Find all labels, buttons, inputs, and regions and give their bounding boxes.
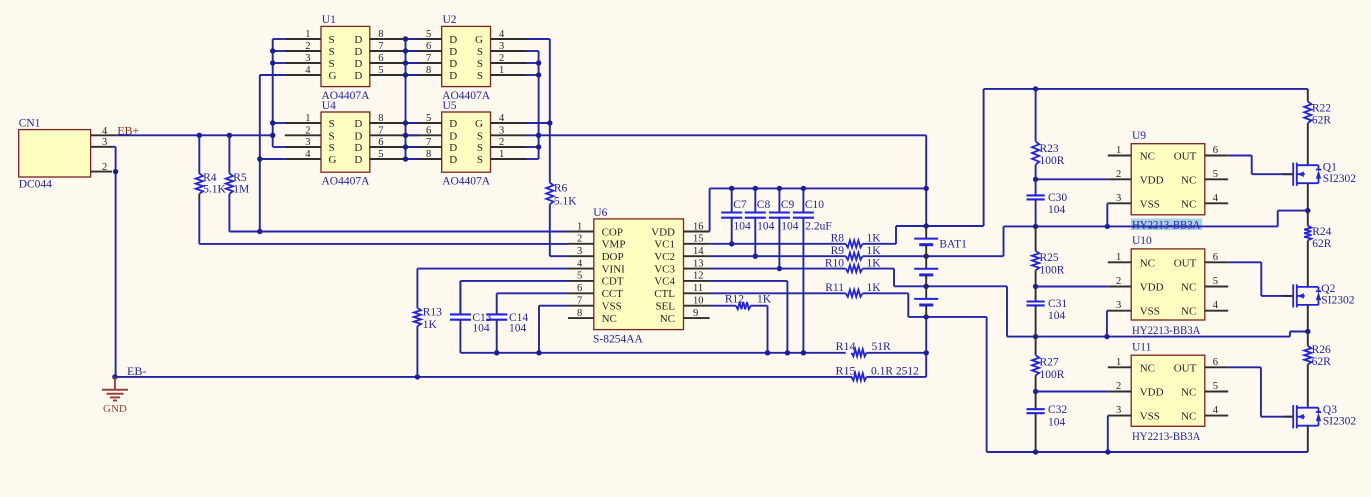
svg-text:D: D [354,34,362,46]
wire C31 junction to U10 VDD [1036,286,1108,288]
svg-text:1: 1 [1116,357,1121,368]
svg-text:4: 4 [499,29,505,40]
transistor U1 [285,14,406,102]
resistor R11 [825,282,881,297]
resistor R12 [725,294,772,310]
wire R10 jog to battery junction 3 [863,269,1007,289]
svg-text:S: S [477,130,483,142]
svg-text:100R: 100R [1040,155,1065,167]
transistor U4 [285,100,406,188]
svg-text:G: G [329,70,337,82]
capacitor C8 [745,188,775,259]
svg-text:4: 4 [499,113,505,124]
wire U6 SEL row [710,305,736,307]
resistor R22 [1304,89,1331,165]
svg-text:VSS: VSS [1140,411,1160,423]
resistor R4 [196,133,227,244]
svg-text:CCT: CCT [602,288,624,300]
svg-text:D: D [449,118,457,130]
svg-text:VC2: VC2 [654,251,675,263]
svg-text:6: 6 [378,137,383,148]
svg-text:AO4407A: AO4407A [322,176,371,188]
svg-text:R4: R4 [203,172,217,184]
svg-text:VDD: VDD [1140,174,1164,186]
svg-text:COP: COP [602,226,623,238]
svg-text:2: 2 [499,137,504,148]
wire U6 CCT to C14 [497,292,568,294]
svg-text:1K: 1K [867,233,882,245]
svg-text:R26: R26 [1312,344,1331,356]
svg-text:VC1: VC1 [654,239,675,251]
svg-text:8: 8 [378,29,383,40]
resistor R25 [1032,226,1065,286]
svg-text:VSS: VSS [602,300,622,312]
svg-text:7: 7 [378,125,383,136]
svg-text:100R: 100R [1040,369,1065,381]
resistor R24 [1304,211,1332,287]
svg-text:3: 3 [577,246,582,257]
wire C30 junction to U9 VDD [1036,178,1108,180]
wire U6 VC3 row [710,268,846,270]
svg-text:2: 2 [305,41,310,52]
svg-text:7: 7 [577,295,582,306]
svg-text:R6: R6 [554,183,568,195]
pin 4 of CN1 [91,126,117,137]
svg-text:4: 4 [1213,300,1219,311]
svg-text:1: 1 [1116,252,1121,263]
wire R11 jog to battery junction 4 [863,293,987,319]
svg-text:3: 3 [499,41,504,52]
capacitor C13 [450,281,492,353]
svg-text:VDD: VDD [1140,282,1164,294]
svg-text:10: 10 [693,295,704,306]
svg-text:VMP: VMP [602,239,626,251]
svg-text:7: 7 [426,137,431,148]
wire battery junction2 to channel-1 rail [1003,226,1005,256]
transistor Q2 [1283,283,1355,307]
svg-text:SI2302: SI2302 [1323,173,1356,185]
svg-text:R24: R24 [1312,226,1331,238]
svg-text:S: S [329,34,335,46]
svg-text:S: S [329,130,335,142]
svg-text:3: 3 [1116,193,1121,204]
wire Q3 source down to rail corner [1307,426,1309,452]
svg-text:1: 1 [499,149,504,160]
svg-text:G: G [329,154,337,166]
svg-text:VC4: VC4 [654,276,675,288]
svg-text:NC: NC [660,313,675,325]
resistor R14 [836,339,892,357]
pin 3 of CN1 [91,137,112,148]
wire U6 CTL row [710,292,846,294]
svg-text:S: S [329,118,335,130]
chip U10 [1108,235,1228,337]
pin 2 of CN1 [91,162,112,173]
svg-text:104: 104 [734,221,752,233]
svg-text:NC: NC [1140,362,1155,374]
svg-text:4: 4 [305,149,311,160]
svg-text:1: 1 [499,65,504,76]
svg-text:4: 4 [577,258,583,269]
capacitor C10 [793,188,832,352]
svg-text:DC044: DC044 [19,179,52,191]
svg-text:8: 8 [577,308,582,319]
svg-text:11: 11 [693,283,703,294]
svg-text:OUT: OUT [1174,151,1197,163]
wire G-net vertical U1/U4 gates [257,75,285,232]
svg-text:R5: R5 [233,172,247,184]
svg-text:R10: R10 [825,257,844,269]
svg-text:12: 12 [693,271,704,282]
svg-text:104: 104 [1048,204,1066,216]
svg-text:D: D [449,130,457,142]
svg-text:2: 2 [1116,169,1121,180]
ground GND [102,374,128,415]
wire C32 junction to U11 VDD [1036,391,1108,393]
wire D-net middle column U1-U2 and U4-U5 [403,36,419,161]
op-amp U6 S-8254AA body [568,207,710,346]
svg-text:G: G [475,118,483,130]
transistor U5 [406,100,527,188]
svg-text:GND: GND [103,403,127,415]
svg-text:C30: C30 [1048,192,1067,204]
capacitor C14 [486,293,528,353]
svg-text:SI2302: SI2302 [1323,416,1356,428]
wire Q2 source to R26 junction [1305,305,1310,334]
svg-text:104: 104 [781,221,799,233]
svg-text:S: S [477,46,483,58]
svg-text:NC: NC [1181,387,1196,399]
svg-text:8: 8 [426,65,431,76]
wire U10 OUT to Q2 gate [1228,262,1293,296]
resistor R5 [226,133,249,232]
svg-text:1: 1 [577,221,582,232]
svg-text:1M: 1M [233,184,249,196]
wire R9 to battery junction 2 [863,254,1004,259]
svg-text:S: S [329,142,335,154]
svg-text:2: 2 [499,53,504,64]
svg-text:2: 2 [1116,381,1121,392]
svg-text:2: 2 [305,125,310,136]
wire R5 to U6 pin1 (COP) [229,229,568,234]
wire CN1 pin3 to pin2 junction and down to EB- rail [112,147,118,377]
svg-text:62R: 62R [1312,238,1332,250]
svg-text:2.2uF: 2.2uF [805,221,832,233]
transistor Q3 [1283,404,1356,428]
svg-text:5: 5 [1213,381,1218,392]
wire U6 VC2 row [710,255,846,257]
wire battery junction3 to channel-2 rail [1006,286,1008,336]
battery BAT1 [914,226,967,317]
transistor Q1 [1283,162,1356,186]
wire U6 CDT to C13 [460,281,568,314]
svg-text:R22: R22 [1312,103,1331,115]
wire U6 VC4 down to VSS rail [710,281,788,353]
svg-text:5: 5 [1213,276,1218,287]
wire VSS rail from C13 to battery [460,350,845,355]
svg-text:Q1: Q1 [1323,162,1337,174]
svg-text:NC: NC [1181,282,1196,294]
svg-text:NC: NC [1181,198,1196,210]
svg-text:6: 6 [378,53,383,64]
svg-text:6: 6 [1213,145,1218,156]
svg-text:D: D [449,34,457,46]
svg-text:VC3: VC3 [654,263,675,275]
svg-text:AO4407A: AO4407A [442,176,491,188]
svg-text:D: D [354,154,362,166]
resistor R9 [831,245,882,260]
svg-text:U10: U10 [1132,235,1152,247]
svg-text:HY2213-BB3A: HY2213-BB3A [1132,431,1201,443]
svg-text:62R: 62R [1312,115,1332,127]
svg-text:S: S [477,142,483,154]
svg-text:HY2213-BB3A: HY2213-BB3A [1132,220,1201,232]
svg-text:3: 3 [499,125,504,136]
svg-text:104: 104 [509,322,527,334]
net label EB- [127,364,146,378]
svg-text:1K: 1K [867,245,882,257]
wire R4 to U6 pin2 (VMP) [199,243,568,245]
wire channel-3 VSS rail [987,449,1308,454]
connector CN1 [19,118,91,191]
svg-text:51R: 51R [872,341,892,353]
svg-text:U5: U5 [443,100,457,112]
resistor R27 [1032,337,1065,392]
svg-text:8: 8 [426,149,431,160]
svg-text:VSS: VSS [1140,198,1160,210]
svg-text:5.1K: 5.1K [203,184,226,196]
resistor R10 [825,257,881,272]
svg-text:HY2213-BB3A: HY2213-BB3A [1132,325,1201,337]
svg-text:U4: U4 [322,100,336,112]
svg-text:0.1R 2512: 0.1R 2512 [871,365,919,377]
svg-text:R13: R13 [423,307,442,319]
svg-text:104: 104 [1048,417,1066,429]
svg-text:NC: NC [1181,174,1196,186]
svg-text:CTL: CTL [654,288,675,300]
svg-text:G: G [475,34,483,46]
svg-text:R23: R23 [1040,143,1059,155]
resistor R8 [831,233,882,248]
svg-text:1K: 1K [867,257,882,269]
svg-text:S: S [477,70,483,82]
wire U10 VSS down to rail [1106,311,1109,337]
resistor R13 [414,307,442,377]
svg-text:CN1: CN1 [19,118,41,130]
svg-text:VINI: VINI [602,263,626,275]
svg-text:1K: 1K [423,319,438,331]
svg-text:2: 2 [102,162,107,173]
svg-text:2: 2 [1116,276,1121,287]
svg-text:SI2302: SI2302 [1321,295,1354,307]
svg-text:C32: C32 [1048,404,1067,416]
svg-text:VSS: VSS [1140,306,1160,318]
transistor U2 [406,14,527,102]
capacitor C9 [769,188,799,271]
wire channel-1 VSS rail [1004,211,1308,229]
svg-text:15: 15 [693,234,704,245]
svg-text:C9: C9 [781,199,795,211]
svg-text:D: D [354,118,362,130]
wire R14 to battery bottom junction [867,317,929,356]
svg-text:3: 3 [305,53,310,64]
svg-text:EB-: EB- [127,364,146,378]
svg-text:4: 4 [1213,193,1219,204]
wire channel-2 VSS rail [1007,332,1308,340]
wire EB- rail [115,374,852,379]
svg-text:U2: U2 [443,14,457,26]
svg-text:5: 5 [378,149,383,160]
svg-text:1: 1 [305,29,310,40]
chip U9 [1108,130,1228,232]
wire R8 jog to battery top junction [863,223,984,244]
svg-text:D: D [354,58,362,70]
svg-text:U6: U6 [593,207,607,219]
svg-text:5: 5 [426,29,431,40]
svg-text:5: 5 [378,65,383,76]
wire EB+ from CN1 pin4 to U4 S-column [116,134,272,136]
svg-text:1K: 1K [757,294,772,306]
svg-text:7: 7 [426,53,431,64]
svg-text:D: D [354,130,362,142]
svg-text:1K: 1K [867,282,882,294]
svg-text:1: 1 [305,113,310,124]
wire U6 VINI to R13 [417,269,568,308]
svg-text:5: 5 [1213,169,1218,180]
svg-text:8: 8 [378,113,383,124]
resistor R6 [546,183,577,257]
wire U11 VSS down to rail [1107,416,1109,452]
svg-text:VDD: VDD [651,226,675,238]
wire U9 OUT to Q1 gate [1228,156,1293,175]
svg-text:3: 3 [305,137,310,148]
wire VDD pin16 up to capacitor rail [710,186,927,232]
wire Q1 source to R24 junction [1305,183,1310,213]
capacitor C31 [1027,284,1068,337]
capacitor C7 [721,188,751,246]
capacitor C30 [1027,177,1068,227]
svg-text:6: 6 [426,125,431,136]
svg-text:104: 104 [757,221,775,233]
svg-text:5: 5 [577,271,582,282]
svg-text:R12: R12 [725,294,744,306]
svg-text:7: 7 [378,41,383,52]
svg-text:16: 16 [693,221,704,232]
svg-text:S: S [329,58,335,70]
svg-text:U1: U1 [322,14,336,26]
svg-text:OUT: OUT [1174,257,1197,269]
svg-text:R11: R11 [825,282,844,294]
wire U2/U5 gate vertical [526,39,552,183]
svg-text:NC: NC [602,313,617,325]
net label EB+ [117,123,139,137]
resistor R26 [1304,332,1331,408]
svg-text:SEL: SEL [655,300,675,312]
svg-text:Q2: Q2 [1321,283,1335,295]
svg-text:2: 2 [577,234,582,245]
svg-text:R15: R15 [836,363,856,377]
svg-text:D: D [449,70,457,82]
svg-text:R14: R14 [836,339,856,353]
svg-text:NC: NC [1181,306,1196,318]
svg-text:D: D [449,58,457,70]
svg-text:3: 3 [1116,300,1121,311]
svg-text:R25: R25 [1040,252,1059,264]
svg-text:D: D [449,154,457,166]
svg-text:5: 5 [426,113,431,124]
svg-text:6: 6 [577,283,582,294]
svg-text:NC: NC [1181,411,1196,423]
svg-text:D: D [354,70,362,82]
wire U11 OUT to Q3 gate [1228,367,1293,416]
wire battery top to top-right rail [984,86,1308,226]
svg-text:C10: C10 [805,199,824,211]
wire R15 up to battery bottom junction [867,353,927,377]
resistor R15 [836,363,920,380]
svg-text:BAT1: BAT1 [939,239,967,251]
svg-text:4: 4 [1213,405,1219,416]
svg-text:3: 3 [1116,405,1121,416]
wire B+ from source vertical to battery top [539,135,929,226]
svg-text:5.1K: 5.1K [554,196,577,208]
svg-text:4: 4 [305,65,311,76]
svg-text:C31: C31 [1048,298,1067,310]
svg-text:VDD: VDD [1140,387,1164,399]
wire U6 VSS down to VSS rail [539,306,568,353]
svg-text:9: 9 [693,308,698,319]
resistor R23 [1032,89,1065,179]
svg-text:3: 3 [102,137,107,148]
svg-text:D: D [354,46,362,58]
svg-text:R8: R8 [831,233,845,245]
svg-text:1: 1 [1116,145,1121,156]
svg-text:NC: NC [1140,257,1155,269]
svg-text:D: D [449,142,457,154]
wire U6 VC1 row [710,243,846,245]
svg-text:C7: C7 [733,199,747,211]
svg-text:6: 6 [426,41,431,52]
svg-text:C8: C8 [757,199,771,211]
wire S-net vertical U1/U4 left [270,39,285,147]
svg-text:S: S [477,58,483,70]
svg-text:D: D [354,142,362,154]
wire U2/U5 right source vertical [526,51,541,159]
svg-text:S: S [477,154,483,166]
svg-text:S-8254AA: S-8254AA [593,334,644,346]
svg-text:13: 13 [693,258,704,269]
wire R12 down to VSS rail [751,306,768,353]
chip U11 [1108,341,1228,443]
svg-text:6: 6 [1213,252,1218,263]
svg-text:Q3: Q3 [1323,404,1337,416]
svg-text:S: S [329,46,335,58]
wire U9 VSS down to rail [1106,203,1109,226]
svg-text:4: 4 [102,126,108,137]
svg-text:6: 6 [1213,357,1218,368]
svg-text:100R: 100R [1040,265,1065,277]
svg-text:DOP: DOP [602,251,624,263]
svg-text:104: 104 [472,322,490,334]
svg-text:R9: R9 [831,245,845,257]
svg-text:D: D [449,46,457,58]
svg-text:14: 14 [693,246,704,257]
svg-text:U9: U9 [1132,130,1146,142]
svg-text:OUT: OUT [1174,362,1197,374]
svg-text:U11: U11 [1132,341,1152,353]
svg-text:NC: NC [1140,151,1155,163]
svg-text:104: 104 [1048,310,1066,322]
svg-text:62R: 62R [1312,356,1332,368]
